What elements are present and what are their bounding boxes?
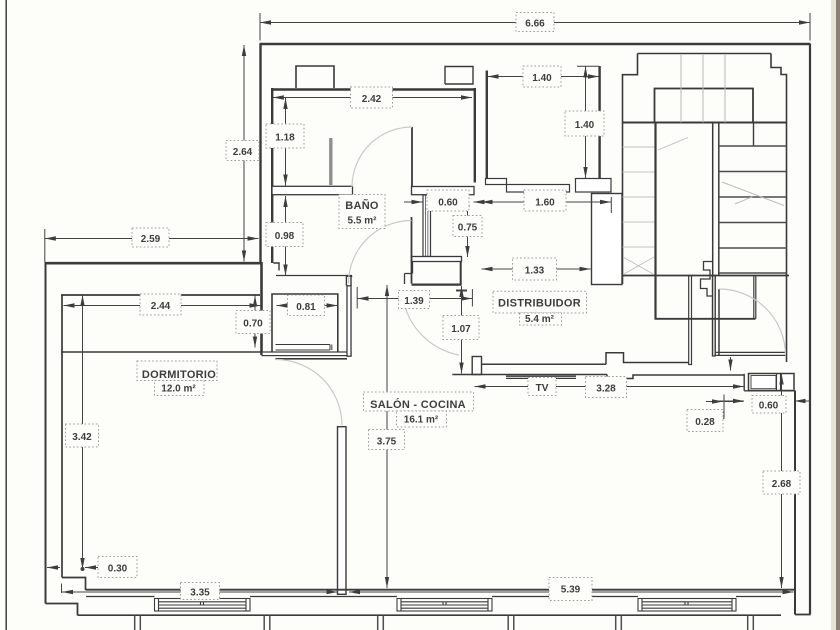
svg-text:6.66: 6.66 — [525, 19, 545, 30]
stair cross mark bottom left — [623, 257, 654, 275]
wall bath mid band — [272, 186, 353, 194]
page right edge strips — [831, 0, 836, 630]
stair mid landing line — [623, 122, 787, 124]
window salon left — [397, 599, 492, 612]
label 0.70 — [236, 311, 270, 334]
svg-text:2.59: 2.59 — [141, 234, 161, 245]
svg-text:1.40: 1.40 — [575, 120, 595, 131]
wall distribuidor east band — [592, 194, 623, 285]
label DORMITORIO — [137, 361, 217, 396]
entry corridor west wall — [689, 276, 692, 365]
dim 1.40h line — [488, 76, 600, 78]
svg-text:3.35: 3.35 — [190, 588, 210, 599]
svg-text:3.75: 3.75 — [377, 437, 397, 448]
label 5.39 — [549, 578, 592, 601]
entry corridor east wall — [712, 276, 715, 357]
dim 0.60 shaft arrows — [404, 201, 423, 203]
door bath lower leaf — [411, 217, 413, 284]
room 1.40 bottom chunk right — [576, 179, 612, 193]
svg-text:2.42: 2.42 — [362, 94, 382, 105]
dim 2.68 line — [781, 374, 783, 589]
salon bottom inner line — [86, 589, 796, 591]
wall left outer upper — [259, 44, 261, 262]
salon north wall bottom line — [452, 375, 744, 379]
label 3.42 — [66, 424, 99, 447]
svg-text:0.70: 0.70 — [243, 319, 263, 330]
label 0.60 shaft — [427, 190, 469, 211]
dim 2.42 line — [273, 97, 472, 99]
label 1.39 — [399, 291, 430, 309]
dim 1.60 tick — [610, 197, 612, 213]
ac box inner — [751, 376, 776, 389]
wall wardrobe/distribuidor divider — [347, 286, 351, 356]
facade right corner — [795, 614, 811, 616]
dim 1.60 line — [482, 201, 612, 203]
svg-text:5.4 m²: 5.4 m² — [525, 314, 555, 325]
wall wc band under 1.40 room — [412, 187, 475, 195]
wall wc left — [474, 88, 476, 183]
room 1.40 bottom band mid — [507, 185, 570, 193]
svg-text:BAÑO: BAÑO — [345, 199, 379, 212]
svg-text:0.60: 0.60 — [438, 198, 458, 209]
dim 1.39 ticks — [357, 287, 472, 309]
dim 3.28 line — [475, 386, 745, 388]
wall top-left horizontal — [45, 262, 261, 265]
label 0.30 — [98, 557, 137, 578]
svg-text:3.28: 3.28 — [596, 384, 616, 395]
svg-text:DISTRIBUIDOR: DISTRIBUIDOR — [498, 298, 581, 310]
svg-text:1.07: 1.07 — [451, 324, 471, 335]
dim 0.28 down arrow — [730, 357, 732, 371]
label SALON-COCINA — [364, 392, 474, 427]
balcony posts — [135, 616, 754, 630]
label 2.44 — [140, 294, 181, 315]
svg-text:0.98: 0.98 — [275, 231, 295, 242]
dim 2.44 line — [64, 305, 261, 307]
dim 3.42 end dot — [81, 567, 85, 571]
wall salon door jamb lower — [338, 427, 347, 595]
label 1.07 — [443, 316, 479, 340]
door salon-distribuidor arc — [404, 303, 459, 355]
stair bottom full line — [623, 275, 790, 277]
label 3.28 — [586, 377, 627, 398]
dim 0.28 bracket — [716, 395, 743, 419]
stair center wall — [713, 123, 719, 276]
wardrobe dormitorio — [272, 294, 338, 352]
dim 2.59 tick — [44, 229, 46, 262]
label 2.64 — [226, 141, 259, 161]
entry bottom line — [715, 352, 787, 355]
dim 1.39 line — [358, 298, 473, 300]
wall shaft bottom band — [412, 257, 462, 262]
svg-text:0.81: 0.81 — [296, 302, 316, 313]
wall bath bottom-left jog — [273, 263, 279, 271]
wall dormitorio inner left — [62, 295, 86, 591]
label 6.66 — [516, 13, 554, 32]
ac box left wall edge — [744, 374, 794, 391]
TV bar — [506, 376, 576, 378]
salon north wall bump — [606, 353, 689, 365]
label 2.59 — [132, 228, 169, 247]
svg-text:1.60: 1.60 — [535, 198, 555, 209]
label 0.75 — [453, 216, 482, 237]
page left border — [5, 0, 7, 630]
wall left outer lower — [45, 262, 47, 604]
stairwell outer outline top — [623, 54, 772, 285]
wall dormitorio top band — [262, 352, 351, 356]
svg-text:1.39: 1.39 — [404, 296, 424, 307]
label 1.60 — [524, 190, 566, 211]
window salon right — [638, 599, 736, 612]
dim 0.70 line — [254, 296, 256, 348]
dim 3.35 line — [62, 591, 338, 593]
dim 0.28 arrow — [706, 401, 723, 403]
dim 1.07 top tick — [456, 290, 467, 292]
label DISTRIBUIDOR — [493, 291, 587, 325]
door entry leaf — [718, 289, 720, 356]
label 2.68 — [763, 471, 800, 494]
duct column — [423, 195, 431, 257]
label 0.28 — [687, 410, 723, 432]
dim 1.40v line — [585, 67, 587, 179]
label 1.18 — [266, 124, 304, 148]
dim 1.40v top tick — [577, 65, 599, 67]
dim 3.35 tick — [61, 584, 63, 594]
dim 0.81 line — [277, 305, 338, 307]
svg-text:3.42: 3.42 — [72, 432, 92, 443]
dim 2.59 line — [45, 238, 259, 240]
dim 0.98 line — [285, 196, 287, 276]
label 2.42 — [351, 87, 393, 108]
wall bath-east step — [346, 276, 353, 286]
stair right flight edge — [753, 123, 755, 147]
svg-text:1.33: 1.33 — [525, 266, 545, 277]
stairwell outer outline right steps — [771, 54, 787, 363]
dim 0.30 arrows — [47, 567, 60, 569]
wall shaft west step — [405, 262, 413, 285]
window dormitorio — [155, 599, 251, 612]
svg-text:TV: TV — [536, 383, 549, 394]
label 3.35 — [181, 583, 220, 600]
dim 5.39 line — [349, 591, 794, 593]
dim 6.66 line — [260, 22, 810, 24]
svg-text:1.40: 1.40 — [532, 73, 552, 84]
label 1.40h — [523, 66, 561, 87]
dim 6.66 ticks — [260, 13, 810, 41]
facade pillar tops — [86, 596, 781, 598]
door dormitorio arc — [276, 360, 342, 426]
label 1.40v — [565, 111, 604, 136]
stair treads right flight — [719, 146, 787, 273]
room 1.40 bottom band left — [486, 179, 507, 185]
stair upper winder lines — [681, 55, 725, 123]
dim 0.60 right arrows — [713, 400, 744, 402]
door dormitorio leaf — [276, 358, 348, 360]
salon east wall — [794, 391, 796, 615]
svg-text:0.28: 0.28 — [695, 417, 715, 428]
dim 1.33 line — [482, 268, 591, 270]
chimney bump — [296, 66, 334, 88]
dim 0.75 line — [467, 196, 469, 257]
ac box divider — [777, 374, 781, 391]
svg-text:0.75: 0.75 — [458, 223, 478, 234]
door entry arc — [719, 289, 786, 356]
facade outer line — [78, 614, 782, 616]
label BANO — [339, 195, 385, 229]
wall top outer — [260, 43, 811, 46]
vent shaft box — [445, 67, 473, 85]
wall closet strip right — [260, 262, 263, 355]
label 0.98 — [266, 223, 303, 247]
svg-text:SALÓN - COCINA: SALÓN - COCINA — [370, 398, 466, 411]
dim 1.18 line — [285, 98, 287, 186]
ac box right — [749, 374, 795, 391]
salon north wall tab left — [472, 357, 481, 375]
stair landing bottom line — [655, 318, 756, 320]
stair core rectangle — [655, 89, 754, 123]
stair center wall notch — [701, 262, 713, 297]
shower screen — [329, 138, 332, 185]
stair upper faint diagonal — [658, 138, 688, 151]
label 0.81 — [288, 295, 325, 316]
stair core left wall lower — [654, 123, 656, 319]
wall right outer — [809, 44, 811, 615]
wardrobe rails — [276, 345, 332, 351]
dim 3.75 line — [386, 285, 388, 588]
svg-text:5.39: 5.39 — [561, 585, 581, 596]
svg-text:2.68: 2.68 — [772, 479, 792, 490]
door bath lower arc — [349, 221, 412, 284]
label 0.60 right — [752, 396, 786, 414]
dim 1.07 line — [461, 286, 463, 374]
door bath upper leaf — [411, 127, 413, 187]
dim 2.64 line — [243, 45, 245, 262]
wall distribuidor north — [412, 284, 462, 286]
wall dormitorio top — [61, 351, 262, 353]
label 1.33 — [513, 258, 557, 280]
bath floor line — [276, 275, 352, 277]
svg-text:12.0 m²: 12.0 m² — [161, 384, 196, 395]
door bath upper arc — [352, 127, 412, 187]
duct inner lines — [426, 195, 428, 257]
svg-text:5.5 m²: 5.5 m² — [348, 216, 378, 227]
stair treads left flight — [623, 147, 655, 247]
svg-text:2.64: 2.64 — [233, 147, 253, 158]
svg-text:1.18: 1.18 — [275, 133, 295, 144]
svg-text:16.1 m²: 16.1 m² — [404, 415, 439, 426]
stair landing right wall — [754, 276, 756, 319]
wall shaft east — [460, 262, 462, 286]
svg-text:0.30: 0.30 — [108, 564, 128, 575]
svg-text:0.60: 0.60 — [759, 401, 779, 412]
wall dormitorio inner top — [61, 294, 260, 296]
wall bath top — [271, 88, 476, 90]
svg-text:DORMITORIO: DORMITORIO — [142, 369, 216, 381]
stair direction diagonal — [722, 182, 784, 206]
wall bottom-left step — [46, 604, 78, 616]
label TV — [528, 378, 556, 396]
room 1.40 walls — [487, 66, 600, 179]
svg-text:2.44: 2.44 — [151, 301, 171, 312]
dim 3.42 line — [82, 295, 84, 569]
stair center wall lower — [713, 276, 716, 357]
label 3.75 — [369, 430, 405, 450]
salon north wall top line — [482, 363, 607, 365]
wall bath left — [271, 88, 273, 263]
